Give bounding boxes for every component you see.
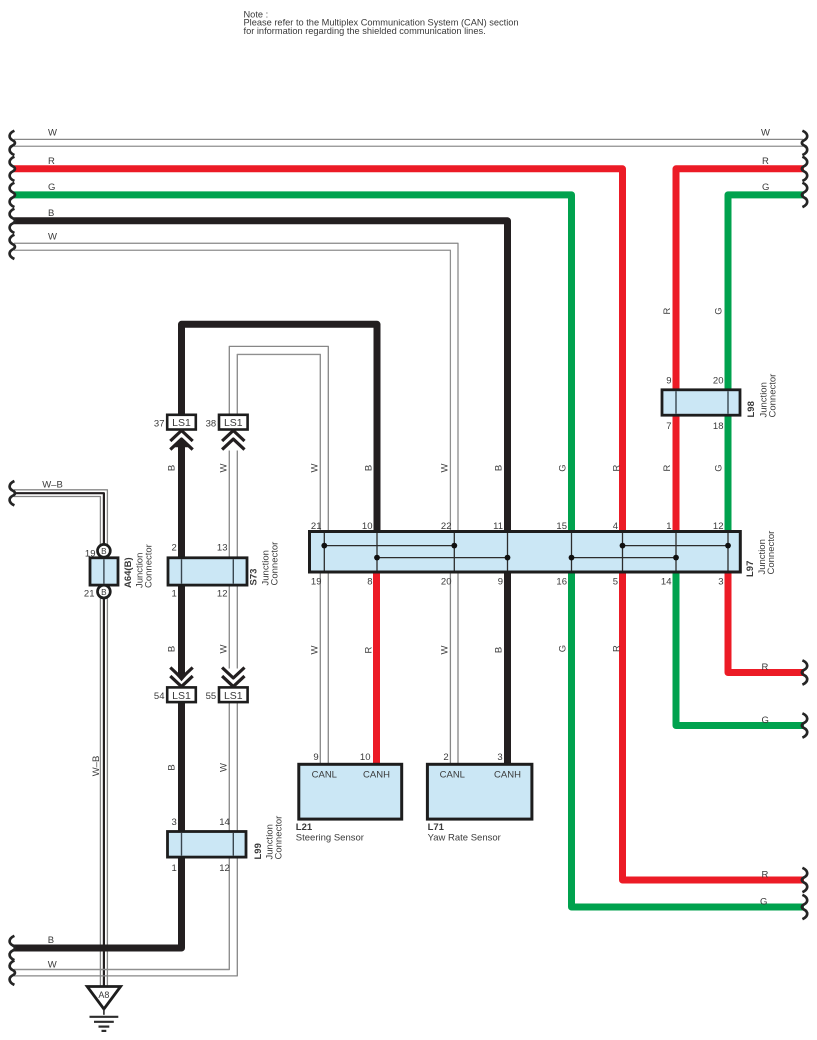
wire R (right top horizontal, through L98 pin 9/7, down to L97 pin 1) xyxy=(676,169,804,532)
shield chevrons below LS1 37 xyxy=(170,431,192,450)
svg-text:1: 1 xyxy=(172,589,177,600)
label R on L97 pin 8 wire xyxy=(363,646,374,653)
svg-text:20: 20 xyxy=(713,376,724,387)
label B on L97 pin 9 wire xyxy=(493,647,504,653)
pin 2 label (L71 CANL) xyxy=(443,752,448,763)
wire R (L97 pin 5 down, corner right to right edge) xyxy=(623,572,805,881)
pin 3 label (L99) xyxy=(172,817,177,828)
label L97 xyxy=(745,561,756,577)
svg-text:B: B xyxy=(167,465,178,471)
L97 top pin numbers 21 10 22 11 15 4 1 12 xyxy=(311,521,724,532)
svg-text:12: 12 xyxy=(713,521,724,532)
pin 3 label (L71 CANH) xyxy=(497,752,502,763)
label B on L97 pin 10 wire xyxy=(363,465,374,471)
wire B inverted-U (LS1 37 to L97 pin 10) xyxy=(182,324,378,532)
wire continuation mark (G lower right end) xyxy=(802,713,807,737)
label W on L97 pin 20 wire xyxy=(440,645,451,654)
wire W shield 2 (inner line) xyxy=(14,250,450,532)
connector LS1 (54) box xyxy=(167,687,196,702)
svg-text:W: W xyxy=(218,644,229,653)
label R on L97 pin 5 wire xyxy=(611,645,622,652)
svg-text:for information regarding the: for information regarding the shielded c… xyxy=(244,26,486,36)
svg-text:14: 14 xyxy=(661,576,672,587)
svg-text:G: G xyxy=(762,182,769,193)
wire B (L97 pin 9 to L71 CANH pin 3) xyxy=(504,572,511,767)
wire B (LS1 54 through L99 pin 3/1, corner left to edge) xyxy=(14,701,182,948)
svg-text:19: 19 xyxy=(311,576,322,587)
label W (shield 2 left) xyxy=(48,232,57,243)
wire G (right top horizontal, through L98 pin 20/18, down to L97 pin 12) xyxy=(728,195,804,532)
svg-text:B: B xyxy=(101,547,107,556)
svg-text:LS1: LS1 xyxy=(224,417,243,429)
label W on L97 pin 22 wire xyxy=(440,463,451,472)
label Junction Connector (A64(B)) xyxy=(135,544,155,588)
connector LS1 (37) box xyxy=(167,415,196,430)
svg-text:L71: L71 xyxy=(428,822,445,833)
svg-text:Steering Sensor: Steering Sensor xyxy=(296,833,364,844)
wire G (L97 pin 16 down, corner right to right edge) xyxy=(572,572,805,908)
svg-text:CANH: CANH xyxy=(363,770,390,781)
shield chevrons above LS1 55 xyxy=(222,668,244,687)
wire W shield 2 (outer line, down to L97 pin 22) xyxy=(14,243,458,532)
wire continuation mark (W shield top left end) xyxy=(10,131,15,155)
svg-text:G: G xyxy=(762,715,769,726)
svg-text:R: R xyxy=(662,307,673,314)
svg-text:54: 54 xyxy=(154,691,165,702)
wire W shield (LS1 55 through L99 pin 14/12, corner left to edge, light) xyxy=(14,701,229,970)
wire continuation mark (W shield top right end) xyxy=(802,131,807,155)
svg-text:R: R xyxy=(762,869,769,880)
label W (top shield left) xyxy=(48,127,57,138)
pin 12 label (S73) xyxy=(217,589,228,600)
svg-text:W–B: W–B xyxy=(91,756,102,777)
wire W shield top (outer line) xyxy=(14,138,803,140)
svg-text:3: 3 xyxy=(172,817,177,828)
wire continuation mark (W-B left end) xyxy=(10,481,15,505)
L97 internal bus (pins 16-14) xyxy=(572,557,677,559)
label W on LS1-38 wire above S73 xyxy=(218,463,229,472)
label B on LS1-37 wire above S73 xyxy=(167,465,178,471)
svg-text:W: W xyxy=(48,232,57,243)
svg-text:B: B xyxy=(167,646,178,652)
svg-text:W: W xyxy=(761,127,770,138)
pin 1 label (L99) xyxy=(172,863,177,874)
arrowhead above shield mark (LS1 37) xyxy=(174,439,189,448)
svg-text:W: W xyxy=(309,463,320,472)
ground bar 1 xyxy=(90,1016,119,1018)
svg-text:B: B xyxy=(493,465,504,471)
svg-text:9: 9 xyxy=(313,752,318,763)
label Steering Sensor xyxy=(296,833,364,844)
label Junction Connector (L99) xyxy=(265,816,285,860)
label G on L97 pin 16 wire xyxy=(557,645,568,652)
wire W-B (inner thin line) xyxy=(14,497,100,545)
svg-text:A8: A8 xyxy=(98,990,109,1000)
wire W-B (outer thin line from left edge to A64(B) pin 19) xyxy=(14,490,107,545)
svg-text:G: G xyxy=(557,464,568,471)
svg-text:Connector: Connector xyxy=(144,544,155,588)
shield chevrons above LS1 54 xyxy=(170,668,192,687)
svg-text:R: R xyxy=(611,645,622,652)
wire R (L97 pin 3 down, corner right to right edge) xyxy=(728,572,804,673)
pin 9 label (L21 CANL) xyxy=(313,752,318,763)
pin 19 label (A64(B)) xyxy=(85,548,96,559)
junction connector L98 box xyxy=(662,390,740,415)
label W–B (vertical ground wire) xyxy=(91,756,102,777)
label G (top right) xyxy=(762,182,769,193)
svg-text:R: R xyxy=(662,464,673,471)
wire continuation mark (G bottom right end) xyxy=(802,895,807,919)
label R on L97 pin 4 wire xyxy=(611,464,622,471)
L97 internal bus (pins 4-3) xyxy=(623,545,729,547)
wire W shield (L97 pin 19 to L21 CANL pin 9, dark line) xyxy=(319,572,321,767)
svg-text:38: 38 xyxy=(206,418,217,429)
svg-text:S73: S73 xyxy=(249,569,260,586)
svg-text:B: B xyxy=(363,465,374,471)
pin 10 label (L21 CANH) xyxy=(360,752,371,763)
svg-text:8: 8 xyxy=(367,576,372,587)
svg-text:5: 5 xyxy=(613,576,618,587)
L21 CANL terminal label xyxy=(312,770,337,781)
svg-text:B: B xyxy=(493,647,504,653)
svg-text:W–B: W–B xyxy=(42,479,63,490)
wire W-B below A64(B) to ground A8 (right thin line) xyxy=(106,598,108,988)
label L71 xyxy=(428,822,445,833)
ground triangle A8 xyxy=(87,987,120,1010)
wire G (left top horizontal, down to L97 pin 15) xyxy=(14,195,572,532)
wire R (L97 pin 8 to L21 CANH pin 10) xyxy=(373,572,380,767)
ground stem xyxy=(103,1009,105,1015)
pin 12 label (L99) xyxy=(219,863,230,874)
pin 13 label (S73) xyxy=(217,543,228,554)
wire W shield (L97 pin 20 to L71 CANL, light line) xyxy=(457,572,459,767)
L97 bottom pin numbers 19 8 20 9 16 5 14 3 xyxy=(311,576,724,587)
L97 internal bus (pins 10-11) xyxy=(377,557,508,559)
L97 bus junction dots xyxy=(321,543,730,561)
junction connector L99 box xyxy=(168,832,247,858)
svg-text:15: 15 xyxy=(556,521,567,532)
connector LS1 (38) box xyxy=(219,415,248,430)
pin 2 label (S73) xyxy=(172,543,177,554)
wire continuation mark (R left end) xyxy=(10,157,15,181)
pin 7 label (L98) xyxy=(666,421,671,432)
wire G (L97 pin 14 down, corner right to right edge) xyxy=(676,572,804,726)
svg-text:1: 1 xyxy=(666,521,671,532)
label S73 xyxy=(249,569,260,586)
junction connector L97 box with pin terminals xyxy=(310,532,741,573)
wire continuation mark (W shield bottom left end) xyxy=(10,961,15,985)
svg-text:10: 10 xyxy=(360,752,371,763)
wire continuation mark (R lower right end) xyxy=(802,660,807,684)
svg-text:W: W xyxy=(440,645,451,654)
svg-text:CANL: CANL xyxy=(312,770,337,781)
svg-text:21: 21 xyxy=(311,521,322,532)
label G on L97 pin 12 wire lower xyxy=(714,464,725,471)
label Yaw Rate Sensor xyxy=(428,833,501,844)
label B (top left) xyxy=(48,208,54,219)
svg-text:R: R xyxy=(762,156,769,167)
svg-text:LS1: LS1 xyxy=(224,690,243,702)
svg-text:55: 55 xyxy=(206,691,217,702)
svg-text:W: W xyxy=(309,645,320,654)
svg-text:Connector: Connector xyxy=(269,542,280,586)
wire W-B below A64(B) to ground A8 (left thin line) xyxy=(99,598,101,988)
wire continuation mark (G left end) xyxy=(10,183,15,207)
svg-text:CANH: CANH xyxy=(494,770,521,781)
wire W shield (L97 pin 19 to L21 CANL, light line) xyxy=(327,572,329,767)
svg-text:10: 10 xyxy=(362,521,373,532)
svg-text:L98: L98 xyxy=(746,401,757,417)
label Junction Connector (L97) xyxy=(757,531,777,575)
label W (bottom left) xyxy=(48,960,57,971)
wire W-B below A64(B) to ground A8 (black core) xyxy=(103,598,105,988)
label A64(B) xyxy=(123,557,134,588)
label W–B (left horizontal) xyxy=(42,479,63,490)
svg-text:13: 13 xyxy=(217,543,228,554)
svg-text:L97: L97 xyxy=(745,561,756,577)
label R (pin 3 exit) xyxy=(762,662,769,673)
label R on L98/L97 pin 1 wire xyxy=(662,307,673,314)
svg-text:12: 12 xyxy=(217,589,228,600)
svg-text:9: 9 xyxy=(666,376,671,387)
label R (pin 5 exit) xyxy=(762,869,769,880)
label R (top left) xyxy=(48,156,55,167)
wire W shield (LS1 55 through L99, corner left to edge, dark) xyxy=(14,701,237,976)
svg-text:2: 2 xyxy=(172,543,177,554)
wire W shield (L97 pin 20 to L71 CANL pin 2, dark line) xyxy=(449,572,451,767)
svg-text:G: G xyxy=(557,645,568,652)
svg-text:B: B xyxy=(167,764,178,770)
label R (top right) xyxy=(762,156,769,167)
svg-text:20: 20 xyxy=(441,576,452,587)
pin 38 label xyxy=(206,418,217,429)
label G (top left) xyxy=(48,182,55,193)
pin 1 label (S73) xyxy=(172,589,177,600)
label B below S73 xyxy=(167,646,178,652)
wire continuation mark (W shield 2 left end) xyxy=(10,235,15,259)
label G (pin 16 exit) xyxy=(760,896,767,907)
label G (pin 14 exit) xyxy=(762,715,769,726)
svg-text:G: G xyxy=(48,182,55,193)
svg-text:7: 7 xyxy=(666,421,671,432)
svg-text:G: G xyxy=(760,896,767,907)
label Junction Connector (S73) xyxy=(260,542,280,586)
label W below LS1 55 xyxy=(218,763,229,772)
L97 internal bus (pins 21-22) xyxy=(324,545,454,547)
L21 CANH terminal label xyxy=(363,770,390,781)
ground bar 3 xyxy=(99,1025,110,1027)
label W below S73 xyxy=(218,644,229,653)
svg-text:W: W xyxy=(218,763,229,772)
label B below LS1 54 xyxy=(167,764,178,770)
svg-text:B: B xyxy=(101,588,107,597)
label G on L97 pin 15 wire xyxy=(557,464,568,471)
label B (bottom left) xyxy=(48,935,54,946)
svg-text:37: 37 xyxy=(154,418,165,429)
label Junction Connector (L98) xyxy=(758,374,778,418)
svg-text:W: W xyxy=(218,463,229,472)
wire continuation mark (R right end) xyxy=(802,157,807,181)
wire continuation mark (B left end) xyxy=(10,209,15,233)
pin 20 label (L98) xyxy=(713,376,724,387)
svg-text:11: 11 xyxy=(493,521,503,532)
wire W shield (LS1 38 to LS1 55, dark line) xyxy=(236,451,238,669)
wire R (left top horizontal, down to L97 pin 4) xyxy=(14,169,623,532)
svg-text:21: 21 xyxy=(84,588,95,599)
pin 14 label (L99) xyxy=(219,817,230,828)
svg-text:16: 16 xyxy=(556,576,567,587)
component L71 Yaw Rate Sensor box xyxy=(427,764,532,819)
svg-text:3: 3 xyxy=(718,576,723,587)
svg-text:19: 19 xyxy=(85,548,96,559)
pin 54 label xyxy=(154,691,165,702)
svg-text:Connector: Connector xyxy=(766,531,777,575)
ground bar 2 xyxy=(94,1021,114,1023)
svg-text:Connector: Connector xyxy=(767,374,778,418)
junction connector A64(B) box xyxy=(90,558,118,585)
svg-text:LS1: LS1 xyxy=(172,417,191,429)
label B on L97 pin 11 wire xyxy=(493,465,504,471)
shield ground circle B (A64(B) pin 21) xyxy=(98,585,111,598)
svg-text:14: 14 xyxy=(219,817,230,828)
svg-text:A64(B): A64(B) xyxy=(123,557,134,588)
svg-text:12: 12 xyxy=(219,863,230,874)
wire continuation mark (R bottom right end) xyxy=(802,868,807,892)
svg-text:CANL: CANL xyxy=(440,770,465,781)
svg-text:W: W xyxy=(440,463,451,472)
svg-text:W: W xyxy=(48,960,57,971)
label R on L97 pin 1 wire lower xyxy=(662,464,673,471)
svg-text:9: 9 xyxy=(498,576,503,587)
wire W shield inverted-U inner xyxy=(237,354,320,532)
label L98 xyxy=(746,401,757,417)
svg-text:R: R xyxy=(48,156,55,167)
svg-text:R: R xyxy=(762,662,769,673)
svg-text:B: B xyxy=(48,935,54,946)
svg-text:W: W xyxy=(48,127,57,138)
svg-text:22: 22 xyxy=(441,521,452,532)
wire continuation mark (B bottom left end) xyxy=(10,936,15,960)
label W (top shield right) xyxy=(761,127,770,138)
pin 18 label (L98) xyxy=(713,421,724,432)
pin 9 label (L98) xyxy=(666,376,671,387)
L71 CANH terminal label xyxy=(494,770,521,781)
wire W-B (black core line) xyxy=(14,493,104,544)
svg-text:R: R xyxy=(363,646,374,653)
svg-text:3: 3 xyxy=(497,752,502,763)
svg-text:Connector: Connector xyxy=(274,816,285,860)
wire W shield (LS1 38 to LS1 55 via S73 pin 13/12, light line) xyxy=(228,451,230,669)
connector LS1 (55) box xyxy=(219,687,248,702)
svg-text:Yaw Rate Sensor: Yaw Rate Sensor xyxy=(428,833,501,844)
label W on L97 pin 19 wire xyxy=(309,645,320,654)
wire B (left top horizontal, down to L97 pin 11) xyxy=(14,221,508,532)
label G on L98/L97 pin 12 wire xyxy=(714,307,725,314)
pin 55 label xyxy=(206,691,217,702)
svg-text:18: 18 xyxy=(713,421,724,432)
svg-text:2: 2 xyxy=(443,752,448,763)
shield chevrons below LS1 38 xyxy=(222,431,244,450)
svg-text:L99: L99 xyxy=(253,843,264,859)
L71 CANL terminal label xyxy=(440,770,465,781)
pin 21 label (A64(B)) xyxy=(84,588,95,599)
wire continuation mark (G right end) xyxy=(802,183,807,207)
svg-text:R: R xyxy=(611,464,622,471)
label L21 xyxy=(296,822,313,833)
label L99 xyxy=(253,843,264,859)
note text xyxy=(244,9,519,36)
ground bar 4 xyxy=(102,1030,107,1032)
wire W shield inverted-U outer (LS1 38 to L97 pin 21) xyxy=(229,346,328,532)
svg-text:G: G xyxy=(714,307,725,314)
wire W shield top (inner line) xyxy=(14,145,803,147)
svg-text:G: G xyxy=(714,464,725,471)
svg-text:L21: L21 xyxy=(296,822,313,833)
svg-text:4: 4 xyxy=(613,521,618,532)
junction connector S73 box xyxy=(168,558,247,585)
label W on L97 pin 21 wire xyxy=(309,463,320,472)
component L21 Steering Sensor box xyxy=(299,764,402,819)
wire B (LS1 37 to LS1 54, through S73 pin 2/1) xyxy=(178,445,185,674)
arrowhead into LS1 54 xyxy=(174,673,189,682)
svg-text:LS1: LS1 xyxy=(172,690,191,702)
svg-text:1: 1 xyxy=(172,863,177,874)
svg-text:B: B xyxy=(48,208,54,219)
shield ground circle B (A64(B) pin 19) xyxy=(98,544,111,557)
pin 37 label xyxy=(154,418,165,429)
